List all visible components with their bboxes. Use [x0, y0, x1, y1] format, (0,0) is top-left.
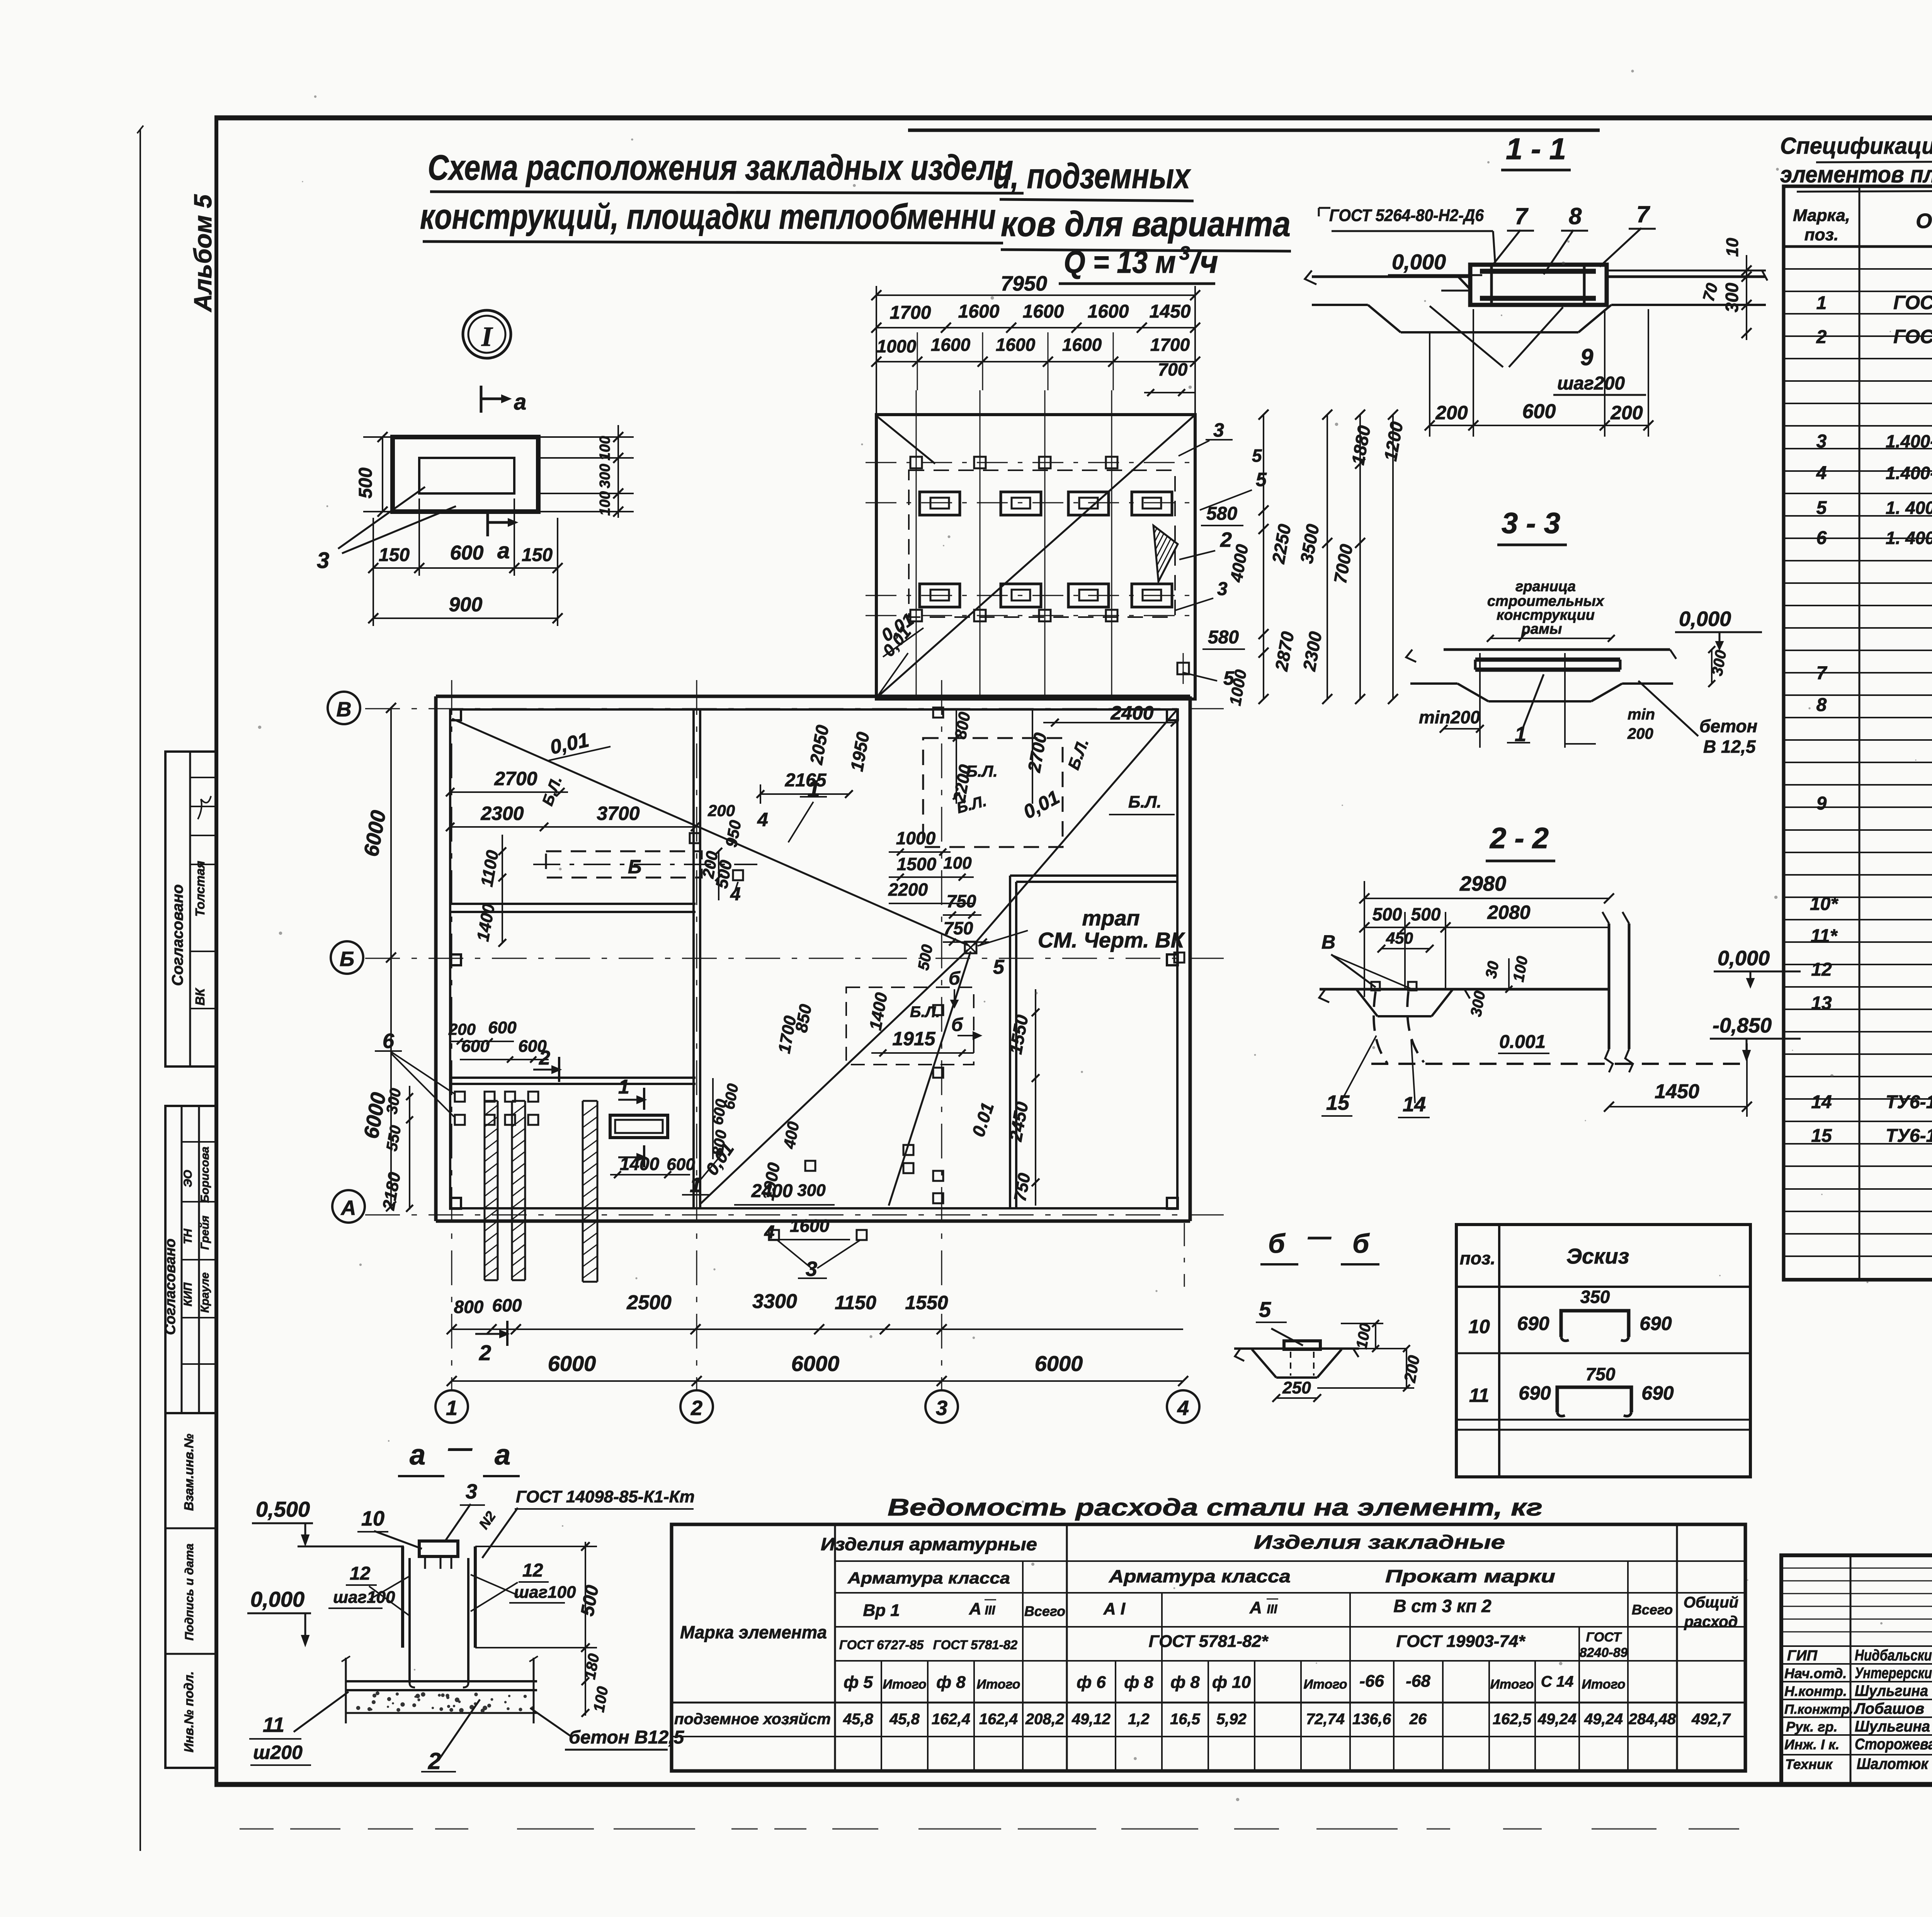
svg-text:2: 2: [690, 1397, 702, 1420]
svg-text:49,24: 49,24: [1584, 1711, 1623, 1728]
svg-text:расход: расход: [1684, 1613, 1738, 1630]
a-a break lines: [345, 1658, 347, 1723]
svg-text:бетон В12,5: бетон В12,5: [569, 1727, 685, 1748]
plan interior wall vertical: [692, 709, 695, 1208]
svg-text:2980: 2980: [1459, 872, 1506, 895]
svg-text:—: —: [448, 1435, 473, 1461]
svg-text:580: 580: [1208, 627, 1239, 648]
svg-text:450: 450: [1386, 929, 1413, 947]
panel outer rect: [393, 437, 538, 512]
svg-text:элементов площадки теплообменн: элементов площадки теплообменников для в…: [1780, 162, 1932, 187]
svg-text:150: 150: [379, 545, 410, 565]
plan right wall: [1189, 696, 1192, 1221]
svg-text:граница: граница: [1515, 578, 1576, 595]
svg-text:ГИП: ГИП: [1787, 1648, 1818, 1664]
svg-text:500: 500: [355, 468, 376, 498]
svg-text:Согласовано: Согласовано: [169, 885, 186, 986]
svg-text:690: 690: [1641, 1382, 1674, 1404]
title block left columns: [1850, 1555, 1852, 1784]
svg-text:1150: 1150: [835, 1292, 876, 1313]
svg-text:7: 7: [1816, 663, 1828, 684]
svg-text:ГОСТ 23279-85: ГОСТ 23279-85: [1893, 292, 1932, 313]
plan left wall: [434, 696, 438, 1221]
axis line 3 vertical: [941, 680, 942, 1390]
svg-text:1500: 1500: [897, 854, 937, 874]
svg-text:б: б: [1352, 1228, 1370, 1259]
svg-text:1450: 1450: [1150, 301, 1191, 322]
axis circle 2: [680, 1390, 713, 1423]
platform chain 1000 1600 1600 1600 1700: [876, 361, 1195, 362]
plan bottom wall: [436, 1220, 1190, 1223]
platform dim 7950: [876, 294, 1195, 296]
svg-text:10*: 10*: [1810, 894, 1838, 914]
svg-text:Рук. гр.: Рук. гр.: [1786, 1719, 1838, 1735]
svg-text:4: 4: [764, 1222, 775, 1243]
svg-text:600: 600: [461, 1037, 490, 1056]
svg-text:Арматура класса: Арматура класса: [1109, 1566, 1291, 1586]
dashed line below pit: [1184, 1223, 1185, 1287]
svg-text:Крауле: Крауле: [199, 1272, 211, 1313]
svg-text:2 - 2: 2 - 2: [1489, 822, 1549, 855]
svg-text:Спецификация к схеме расположе: Спецификация к схеме расположения подзем…: [1780, 133, 1932, 159]
svg-text:Шульгина: Шульгина: [1855, 1718, 1930, 1735]
svg-text:9: 9: [1580, 344, 1594, 370]
leader to pos 3: [338, 487, 425, 549]
axis line B: [365, 958, 1229, 959]
svg-text:Унтерерский: Унтерерский: [1855, 1665, 1932, 1682]
platform outer rect: [876, 415, 1195, 699]
svg-text:350: 350: [1580, 1287, 1610, 1307]
svg-text:10: 10: [1468, 1316, 1490, 1337]
svg-text:45,8: 45,8: [843, 1711, 874, 1728]
spec table column lines: [1859, 186, 1861, 1280]
svg-text:Обозначение: Обозначение: [1916, 209, 1932, 233]
svg-text:а: а: [514, 390, 526, 415]
svg-text:600: 600: [492, 1295, 522, 1315]
svg-text:ков для варианта: ков для варианта: [1001, 204, 1291, 244]
svg-text:3700: 3700: [597, 803, 639, 824]
svg-text:4: 4: [1177, 1397, 1189, 1420]
a-a concrete speckle: [387, 1706, 389, 1708]
svg-text:500: 500: [1372, 904, 1402, 924]
svg-text:3: 3: [1179, 242, 1190, 264]
curved pipes 14 15: [1374, 992, 1387, 1063]
svg-text:300: 300: [1722, 282, 1742, 312]
trap drain square: [965, 942, 976, 953]
svg-text:поз.: поз.: [1460, 1248, 1495, 1268]
section mark a bottom: [486, 509, 489, 536]
svg-text:Техник: Техник: [1785, 1756, 1833, 1772]
svg-text:П.конжтр.: П.конжтр.: [1784, 1702, 1853, 1717]
plan top wall: [436, 695, 1190, 698]
svg-text:подземное хозяйст: подземное хозяйст: [674, 1711, 831, 1728]
svg-text:100: 100: [597, 491, 613, 515]
svg-text:-0,850: -0,850: [1713, 1014, 1772, 1037]
svg-text:200: 200: [1610, 402, 1643, 424]
svg-text:0,000: 0,000: [1679, 607, 1731, 631]
svg-text:3: 3: [1213, 419, 1224, 441]
title block left thin rows: [1781, 1568, 1932, 1569]
svg-text:1,2: 1,2: [1128, 1711, 1150, 1728]
svg-text:—: —: [1308, 1223, 1332, 1249]
right dims 10 300: [1746, 255, 1747, 340]
svg-text:5: 5: [1259, 1297, 1271, 1322]
svg-text:I: I: [481, 321, 493, 352]
a-a dim 500: [585, 1542, 586, 1650]
svg-text:Грейя: Грейя: [199, 1215, 211, 1250]
svg-text:0,000: 0,000: [250, 1587, 304, 1611]
svg-text:2400: 2400: [1110, 702, 1153, 724]
svg-text:ГОСТ 5781-82*: ГОСТ 5781-82*: [1149, 1632, 1269, 1651]
svg-text:162,5: 162,5: [1493, 1711, 1532, 1728]
svg-text:КИП: КИП: [182, 1282, 194, 1306]
section mark 2 lower: [506, 1321, 509, 1346]
svg-text:б: б: [949, 968, 961, 989]
svg-text:Прокат марки: Прокат марки: [1385, 1566, 1555, 1586]
drawing frame bottom border: [214, 1782, 1932, 1787]
svg-text:162,4: 162,4: [932, 1711, 970, 1728]
svg-text:1450: 1450: [1655, 1080, 1699, 1103]
svg-text:45,8: 45,8: [889, 1711, 920, 1728]
b-b plate line: [1234, 1347, 1359, 1350]
svg-text:3 - 3: 3 - 3: [1502, 507, 1560, 540]
svg-text:8: 8: [1569, 203, 1582, 229]
bottom fold dashed line: [240, 1828, 274, 1830]
svg-text:690: 690: [1519, 1382, 1551, 1404]
svg-text:2: 2: [1220, 528, 1232, 551]
svg-text:5: 5: [1256, 469, 1267, 490]
svg-text:Согласовано: Согласовано: [162, 1238, 179, 1335]
svg-text:шаг200: шаг200: [1557, 373, 1625, 394]
svg-text:6: 6: [383, 1029, 395, 1053]
svg-text:3300: 3300: [752, 1290, 797, 1313]
svg-text:трап: трап: [1082, 906, 1139, 930]
svg-text:750: 750: [947, 891, 976, 911]
svg-text:ГОСТ 6727-85: ГОСТ 6727-85: [839, 1638, 924, 1652]
svg-text:6000: 6000: [791, 1351, 840, 1376]
panel bottom dim 900: [373, 617, 558, 619]
svg-text:12: 12: [350, 1563, 371, 1584]
svg-text:100: 100: [597, 436, 613, 460]
svg-text:2700: 2700: [494, 768, 537, 789]
svg-text:2: 2: [479, 1340, 491, 1365]
svg-text:5: 5: [1223, 667, 1235, 689]
spec table header underline: [1784, 245, 1932, 248]
svg-text:Ведомость расхода стали на: Ведомость расхода стали на элемент, кг: [888, 1494, 1543, 1521]
svg-text:Лобашов: Лобашов: [1854, 1700, 1924, 1717]
pipe dashed line: [1371, 1063, 1747, 1065]
svg-text:150: 150: [522, 545, 553, 565]
svg-text:Сторожева: Сторожева: [1855, 1736, 1932, 1753]
slab bottom and haunch: [1312, 304, 1368, 306]
svg-text:б: б: [951, 1015, 963, 1035]
svg-text:1000: 1000: [896, 828, 936, 848]
svg-text:3: 3: [806, 1257, 817, 1281]
axis line V: [365, 708, 1229, 709]
left stamp column block 1 soglasovano: [165, 752, 216, 1067]
svg-text:700: 700: [1158, 359, 1188, 379]
svg-text:250: 250: [1282, 1378, 1311, 1397]
dim 1400 600: [610, 1174, 690, 1175]
svg-text:ГОСТ 19903-74*: ГОСТ 19903-74*: [1396, 1632, 1526, 1651]
axis circle 4: [1167, 1390, 1199, 1423]
svg-text:600: 600: [450, 542, 484, 564]
svg-text:0,000: 0,000: [1718, 947, 1770, 970]
svg-text:ф 10: ф 10: [1212, 1673, 1251, 1692]
svg-text:В 12,5: В 12,5: [1703, 737, 1756, 757]
svg-text:2200: 2200: [888, 879, 928, 900]
svg-text:Шульгина: Шульгина: [1855, 1682, 1928, 1699]
svg-text:2: 2: [1816, 327, 1827, 347]
svg-text:200: 200: [1627, 725, 1653, 742]
svg-text:1550: 1550: [905, 1292, 948, 1313]
svg-text:Б: Б: [628, 856, 641, 878]
anchor squares rows bottom-left: [455, 1092, 465, 1102]
svg-text:600: 600: [1522, 400, 1556, 423]
plan interior wall horizontal 1: [450, 903, 696, 905]
svg-text:Инв.№ подл.: Инв.№ подл.: [182, 1671, 196, 1752]
dim 2165: [760, 793, 849, 795]
a-a column: [401, 1546, 404, 1648]
svg-text:16,5: 16,5: [1170, 1711, 1201, 1728]
svg-text:1: 1: [618, 1076, 629, 1098]
panel right dims: [617, 425, 619, 518]
svg-text:Б.Л.: Б.Л.: [1128, 793, 1162, 811]
svg-text:11: 11: [263, 1713, 284, 1737]
drawing frame left border: [214, 116, 218, 1787]
axis line A: [365, 1214, 1229, 1216]
2-2 dim 1450: [1609, 1106, 1747, 1107]
slab top lines: [1312, 276, 1470, 278]
svg-text:1600: 1600: [790, 1216, 830, 1236]
leader 9 shag200: [1430, 306, 1503, 367]
platform pads row 2: [920, 584, 960, 607]
svg-text:7: 7: [1515, 203, 1529, 229]
steel table outer box: [672, 1524, 1745, 1771]
svg-text:III: III: [1267, 1602, 1278, 1616]
axis circle A: [332, 1190, 365, 1223]
svg-text:900: 900: [449, 594, 483, 616]
svg-text:72,74: 72,74: [1306, 1711, 1345, 1728]
svg-text:Нидбальский: Нидбальский: [1855, 1647, 1932, 1664]
panel bottom dims 150 600 150: [373, 567, 558, 569]
svg-text:Итого: Итого: [1303, 1677, 1347, 1692]
svg-text:Вр 1: Вр 1: [863, 1601, 900, 1620]
axis circle 3: [925, 1390, 958, 1423]
svg-text:1. 400-6/76 лист107: 1. 400-6/76 лист107: [1886, 528, 1932, 548]
platform diagonal: [876, 416, 1194, 698]
B zone dashed rect: [546, 851, 702, 878]
platform right dim chains: [1263, 415, 1264, 699]
svg-text:ВК: ВК: [193, 987, 207, 1005]
embedded plate 1-1: [1470, 265, 1607, 305]
panel left dim 500: [382, 437, 383, 512]
left stamp column block 2 soglasovano: [165, 1106, 216, 1413]
svg-text:Шалотюк: Шалотюк: [1857, 1755, 1929, 1772]
svg-text:ГОСТ 23279-85: ГОСТ 23279-85: [1893, 326, 1932, 347]
svg-text:Марка элемента: Марка элемента: [680, 1622, 827, 1642]
b-b dim 250: [1276, 1397, 1317, 1399]
2-2 slab line: [1320, 988, 1609, 991]
svg-text:0.001: 0.001: [1499, 1032, 1546, 1052]
svg-text:Схема расположения закладных: Схема расположения закладных издели: [428, 148, 1013, 187]
svg-text:Итого: Итого: [883, 1677, 926, 1692]
slope diagonal trap to bottom-left: [701, 950, 968, 1204]
spec table row lines: [1784, 268, 1932, 270]
axis circle V: [328, 692, 360, 724]
svg-text:10: 10: [1723, 238, 1742, 257]
svg-text:А: А: [340, 1196, 356, 1220]
sheet edge line left: [139, 129, 141, 1851]
svg-text:1400: 1400: [620, 1154, 660, 1174]
svg-text:8240-89: 8240-89: [1580, 1645, 1628, 1660]
b-b dim 200: [1406, 1349, 1407, 1388]
title block staff rows: [1781, 1645, 1932, 1647]
svg-text:3: 3: [1816, 431, 1827, 452]
svg-text:шаг100: шаг100: [514, 1583, 576, 1602]
svg-text:поз.: поз.: [1804, 225, 1838, 244]
svg-text:ф 6: ф 6: [1077, 1673, 1106, 1692]
svg-text:1: 1: [446, 1397, 457, 1420]
left vertical chain 6000s: [390, 708, 392, 1206]
mid plan anchor squares: [805, 1161, 815, 1171]
svg-text:200: 200: [707, 801, 735, 820]
svg-text:4: 4: [757, 809, 768, 830]
svg-text:й, подземных: й, подземных: [993, 156, 1191, 196]
svg-text:ф 5: ф 5: [844, 1673, 873, 1692]
3-3 slab with rails: [1444, 648, 1670, 651]
dim 2700: [450, 791, 568, 793]
svg-text:ЭО: ЭО: [182, 1170, 194, 1187]
svg-text:5: 5: [1816, 498, 1827, 518]
bottom chain row 1: [452, 1328, 1183, 1330]
svg-text:Подпись и дата: Подпись и дата: [182, 1543, 196, 1640]
svg-text:750: 750: [944, 918, 973, 938]
svg-text:III: III: [985, 1603, 996, 1617]
svg-text:Б: Б: [340, 947, 354, 971]
svg-text:13: 13: [1811, 993, 1832, 1014]
axis circle 1: [435, 1390, 468, 1423]
svg-text:1600: 1600: [931, 335, 971, 355]
pit wall squares: [933, 1005, 943, 1015]
svg-text:Нач.отд.: Нач.отд.: [1784, 1665, 1847, 1681]
svg-text:49,12: 49,12: [1071, 1711, 1111, 1728]
svg-text:5,92: 5,92: [1216, 1711, 1247, 1728]
svg-text:208,2: 208,2: [1025, 1711, 1064, 1728]
svg-text:2: 2: [539, 1047, 550, 1069]
svg-text:1600: 1600: [1088, 301, 1129, 322]
svg-text:рамы: рамы: [1521, 621, 1562, 637]
svg-text:б: б: [1268, 1228, 1286, 1259]
svg-text:ф 8: ф 8: [1170, 1673, 1200, 1692]
platform small squares top row: [910, 457, 922, 468]
svg-text:ГОСТ: ГОСТ: [1586, 1630, 1622, 1645]
svg-text:бетон: бетон: [1699, 716, 1757, 736]
eskiz table box: [1456, 1225, 1750, 1477]
svg-text:а: а: [497, 538, 510, 563]
platform pads row 1: [920, 492, 960, 515]
svg-text:2: 2: [428, 1748, 441, 1774]
svg-text:492,7: 492,7: [1691, 1711, 1731, 1728]
svg-text:100: 100: [943, 854, 972, 873]
svg-text:2165: 2165: [785, 770, 827, 791]
svg-text:-68: -68: [1406, 1672, 1430, 1691]
b-b dim 100: [1375, 1323, 1376, 1349]
svg-text:Эскиз: Эскиз: [1566, 1244, 1629, 1268]
plan interior wall horizontal 2: [450, 1077, 696, 1079]
axis line 1 vertical: [451, 680, 452, 1390]
svg-text:ГОСТ 5781-82: ГОСТ 5781-82: [933, 1638, 1018, 1652]
pit room walls: [1009, 876, 1011, 1208]
detail I circle: [463, 310, 511, 358]
svg-text:В ст 3 кп 2: В ст 3 кп 2: [1393, 1596, 1492, 1616]
svg-text:Итого: Итого: [976, 1677, 1020, 1692]
svg-text:200: 200: [1435, 402, 1468, 424]
svg-text:Итого: Итого: [1582, 1677, 1625, 1692]
svg-text:600: 600: [488, 1018, 517, 1037]
b-b dashed anchors: [1290, 1352, 1291, 1376]
svg-text:500: 500: [1411, 904, 1441, 924]
slope diagonal trap down-left short: [889, 951, 971, 1206]
svg-text:Марка,: Марка,: [1793, 206, 1850, 225]
section mark 2 upper: [558, 1057, 560, 1082]
svg-text:14: 14: [1811, 1092, 1832, 1112]
a-a slab lines: [346, 1680, 537, 1682]
svg-text:0,500: 0,500: [256, 1497, 310, 1521]
panel inner rect: [419, 458, 514, 493]
svg-text:В: В: [1321, 931, 1335, 953]
svg-text:49,24: 49,24: [1537, 1711, 1577, 1728]
a-a column base hooks: [410, 1673, 415, 1687]
slope diagonal top-left to trap: [452, 719, 968, 945]
svg-text:Б.Л.: Б.Л.: [910, 1004, 940, 1021]
svg-text:В: В: [337, 698, 352, 721]
svg-text:а: а: [495, 1439, 510, 1471]
2-2 dim 450: [1381, 948, 1430, 949]
svg-text:5: 5: [993, 956, 1005, 978]
steel table verticals: [834, 1524, 836, 1771]
svg-text:1700: 1700: [1150, 335, 1190, 355]
svg-text:1: 1: [1816, 293, 1827, 313]
2-2 haunch: [1356, 989, 1378, 1016]
platform lower-right anchor: [1177, 663, 1189, 674]
anchor square axis2 top: [690, 833, 700, 843]
svg-text:Арматура класса: Арматура класса: [847, 1569, 1010, 1587]
svg-text:162,4: 162,4: [979, 1711, 1018, 1728]
dashed rect lower: [846, 987, 974, 1065]
platform grid verticals: [916, 390, 917, 699]
svg-text:8: 8: [1816, 695, 1827, 715]
platform small squares bottom row: [910, 610, 922, 621]
svg-text:15: 15: [1326, 1091, 1350, 1114]
svg-text:Изделия арматурные: Изделия арматурные: [821, 1534, 1037, 1554]
b-b haunch: [1252, 1349, 1276, 1378]
svg-text:Взам.инв.№: Взам.инв.№: [182, 1434, 196, 1511]
svg-text:1.400-15. В1. 430-05: 1.400-15. В1. 430-05: [1886, 431, 1932, 451]
svg-text:Альбом 5: Альбом 5: [189, 194, 217, 313]
2-2 dims 500 500 2080: [1364, 927, 1609, 928]
svg-text:1 - 1: 1 - 1: [1506, 132, 1566, 166]
title block outer box: [1781, 1555, 1932, 1784]
upper BL dashed rect: [923, 738, 1063, 847]
drawing frame top border: [214, 116, 1932, 121]
dims 1100 1400 vertical: [502, 835, 503, 943]
svg-text:1000: 1000: [877, 336, 917, 356]
svg-text:7950: 7950: [1001, 272, 1047, 295]
steel table horizontals: [835, 1560, 1745, 1562]
dim 2300 3700: [450, 826, 695, 828]
svg-text:26: 26: [1409, 1711, 1427, 1728]
